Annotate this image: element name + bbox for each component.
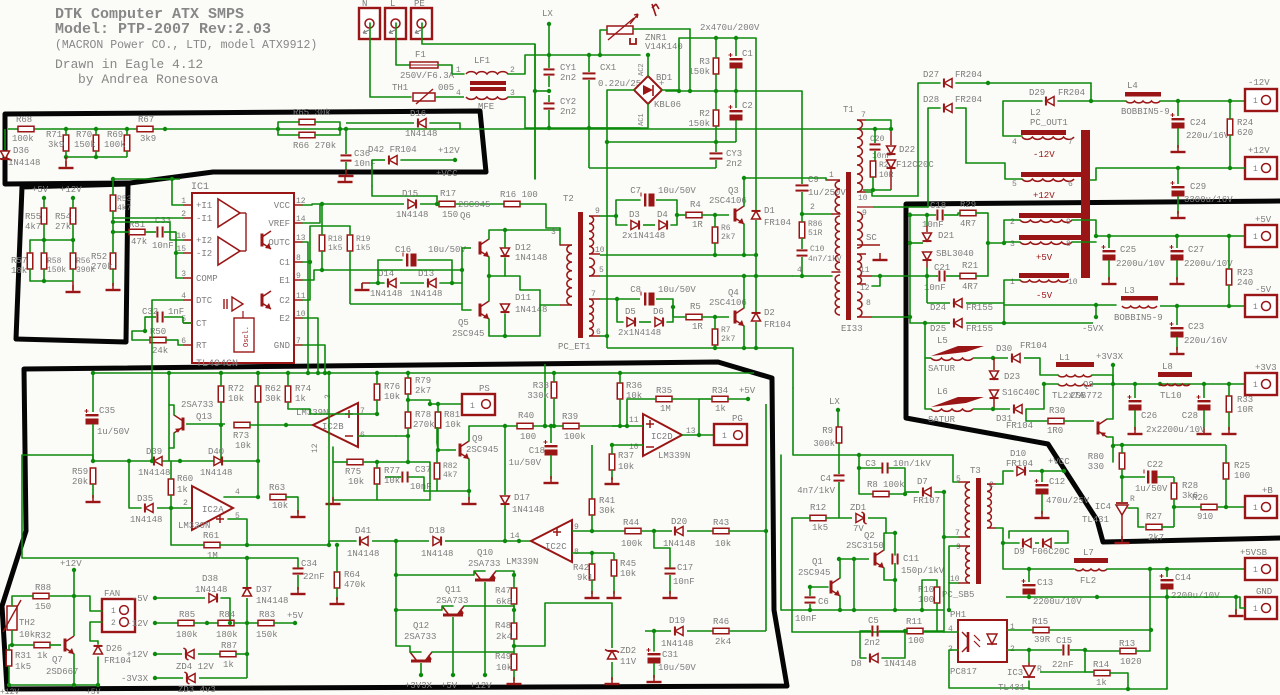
resistor R6 2k7 bbox=[712, 227, 718, 243]
svg-text:10u/50V: 10u/50V bbox=[658, 663, 696, 673]
svg-text:C25: C25 bbox=[1120, 245, 1136, 255]
IC1 pin 10 E2 bbox=[294, 317, 303, 319]
wire FAN pin2 bbox=[90, 622, 102, 641]
PC_OUT1 winding 2-9 bbox=[1019, 213, 1082, 218]
wires R65 R66 loop bbox=[278, 122, 299, 129]
IC1 pin 9 E1 bbox=[294, 279, 303, 281]
svg-text:C6: C6 bbox=[818, 597, 829, 607]
svg-text:220u/16V: 220u/16V bbox=[1184, 336, 1228, 346]
svg-text:+VCC: +VCC bbox=[1048, 457, 1070, 467]
transistor Q4 2SC4106 bbox=[734, 311, 737, 324]
capacitor C8 10u/50V bbox=[644, 293, 646, 306]
svg-text:R66 270k: R66 270k bbox=[293, 141, 336, 151]
row y545 right bbox=[247, 544, 329, 546]
svg-text:R65 30k: R65 30k bbox=[293, 108, 331, 118]
svg-text:470u/25V: 470u/25V bbox=[1046, 496, 1090, 506]
svg-text:D35: D35 bbox=[137, 494, 153, 504]
capacitor C15 22nF bbox=[1062, 645, 1064, 656]
svg-text:CY3: CY3 bbox=[726, 149, 742, 159]
diode D39 1N4148 bbox=[154, 457, 162, 466]
ground divider bbox=[72, 281, 74, 290]
svg-text:IC2B: IC2B bbox=[322, 422, 344, 432]
svg-text:C12: C12 bbox=[1049, 477, 1065, 487]
svg-text:2SC4106: 2SC4106 bbox=[709, 196, 747, 206]
+VCC bus top of control box bbox=[93, 372, 754, 374]
wire D27 from T1 pin10 bbox=[918, 83, 940, 196]
resistor R28 3k6 bbox=[1171, 483, 1177, 499]
svg-text:PH1: PH1 bbox=[950, 610, 966, 620]
connector PE bbox=[411, 8, 432, 39]
line filter LF1 bbox=[466, 72, 508, 74]
diode D2 FR104 bbox=[752, 313, 761, 321]
svg-text:R33: R33 bbox=[1237, 395, 1253, 405]
wire bottom row to gnd rail bbox=[1166, 597, 1168, 689]
diode D10 FR104 bbox=[1017, 467, 1025, 476]
resistor R70 150k bbox=[93, 135, 99, 151]
wire R78 R76 node bbox=[396, 435, 408, 437]
svg-text:10u/50V: 10u/50V bbox=[428, 245, 466, 255]
resistor R23 240 bbox=[1226, 269, 1232, 285]
wire T1 pin8 bbox=[872, 316, 910, 318]
svg-text:L4: L4 bbox=[1127, 81, 1138, 91]
node LX standby bbox=[836, 408, 840, 412]
svg-text:2SA733: 2SA733 bbox=[181, 400, 213, 410]
svg-text:R84: R84 bbox=[219, 610, 235, 620]
wire T1 pin7 to B+ row bbox=[744, 177, 826, 179]
resistor R34 1k bbox=[712, 396, 728, 402]
svg-text:FL2: FL2 bbox=[1080, 576, 1096, 586]
wire C7 D4 right node bbox=[656, 199, 677, 201]
connector +B output bbox=[1245, 496, 1277, 518]
comparator IC2C LM339N bbox=[531, 520, 572, 562]
IC1 internal comparator 1 bbox=[218, 199, 240, 227]
diode D15 1N4148 bbox=[408, 200, 416, 209]
svg-text:1k5: 1k5 bbox=[356, 244, 371, 253]
wire FAN pin1 bbox=[90, 596, 102, 611]
capacitor C28 bbox=[1198, 400, 1211, 402]
svg-text:9: 9 bbox=[862, 209, 867, 218]
svg-text:2: 2 bbox=[989, 481, 994, 490]
svg-text:1N4148: 1N4148 bbox=[421, 549, 453, 559]
svg-text:R59: R59 bbox=[72, 467, 88, 477]
svg-text:C2: C2 bbox=[742, 101, 753, 111]
capacitor CY2 2n2 bbox=[544, 102, 555, 104]
dual diode D22 F12C20C bbox=[887, 146, 896, 154]
wire IC2B in+ pin7 bbox=[288, 409, 358, 414]
svg-text:FR104: FR104 bbox=[1006, 421, 1033, 431]
svg-text:ZD4 12V: ZD4 12V bbox=[176, 662, 214, 672]
svg-text:10k: 10k bbox=[384, 476, 400, 486]
svg-text:-5V: -5V bbox=[1036, 291, 1053, 301]
svg-text:270k: 270k bbox=[413, 420, 435, 430]
svg-text:R67: R67 bbox=[138, 115, 154, 125]
resistor R40 100 bbox=[517, 423, 533, 429]
diode D29 FR204 bbox=[1046, 97, 1054, 106]
svg-text:+12V: +12V bbox=[438, 146, 460, 156]
svg-text:R72: R72 bbox=[228, 384, 244, 394]
svg-text:R56: R56 bbox=[76, 257, 91, 266]
wire T1 pin10 bbox=[866, 192, 918, 196]
svg-text:D3: D3 bbox=[629, 210, 640, 220]
svg-text:+12V: +12V bbox=[470, 681, 492, 691]
svg-text:+I2: +I2 bbox=[196, 236, 212, 246]
row -3V3X ZD3 bbox=[153, 676, 157, 680]
svg-text:R19: R19 bbox=[356, 235, 371, 244]
wire CY3 return row bbox=[589, 167, 716, 169]
row y500 grounds bbox=[377, 499, 430, 501]
wire winding 2 left bbox=[1004, 220, 1020, 243]
svg-text:R30: R30 bbox=[1049, 406, 1065, 416]
wire T3 pin9 bbox=[949, 546, 958, 610]
optocoupler PH1 PC817 body bbox=[958, 620, 1007, 662]
svg-text:R27: R27 bbox=[1146, 512, 1162, 522]
svg-text:1k: 1k bbox=[715, 404, 726, 414]
wire L7 output row bbox=[1107, 568, 1245, 570]
svg-text:1: 1 bbox=[1253, 165, 1258, 174]
resistor R10 100 bbox=[934, 587, 940, 603]
IC1 internal transistor 1 bbox=[261, 234, 264, 247]
svg-text:-12V: -12V bbox=[1033, 150, 1055, 160]
svg-text:Q6: Q6 bbox=[460, 211, 471, 221]
svg-text:AC1: AC1 bbox=[638, 113, 646, 126]
svg-text:CY2: CY2 bbox=[560, 97, 576, 107]
svg-text:4R7: 4R7 bbox=[960, 219, 976, 229]
svg-text:SATUR: SATUR bbox=[928, 364, 956, 374]
IC1 internal comparator 2 bbox=[218, 237, 240, 265]
wire F1 to LF1 bbox=[438, 65, 464, 74]
svg-text:R32: R32 bbox=[35, 631, 51, 641]
T1 right winding 7-10 bbox=[857, 120, 862, 192]
svg-text:1N4148: 1N4148 bbox=[396, 210, 428, 220]
svg-text:1u/250V: 1u/250V bbox=[808, 188, 846, 198]
svg-text:Q1: Q1 bbox=[812, 557, 823, 567]
svg-text:2k7: 2k7 bbox=[721, 233, 736, 242]
wire T2 left lower bbox=[539, 290, 541, 305]
inductor L7 FL2 bbox=[1074, 558, 1108, 563]
svg-text:RT: RT bbox=[196, 341, 207, 351]
svg-text:2: 2 bbox=[810, 203, 815, 212]
T1 right winding SC bbox=[857, 212, 862, 248]
svg-text:1u/50V: 1u/50V bbox=[1135, 484, 1168, 494]
svg-text:D22: D22 bbox=[899, 145, 915, 155]
svg-text:1: 1 bbox=[456, 66, 461, 75]
svg-text:R55: R55 bbox=[25, 212, 41, 222]
svg-text:1: 1 bbox=[829, 171, 834, 180]
svg-text:Q5: Q5 bbox=[458, 318, 469, 328]
resistor R16 100 bbox=[504, 201, 520, 207]
zener ZD1 7V bbox=[856, 514, 864, 523]
svg-text:PC_SB5: PC_SB5 bbox=[942, 590, 974, 600]
capacitor C33 10nF bbox=[156, 227, 158, 238]
wire T3 pin7 bbox=[944, 536, 958, 538]
capacitor C1 bbox=[730, 58, 743, 60]
resistor R35 1M bbox=[656, 396, 672, 402]
svg-text:VREF: VREF bbox=[268, 219, 290, 229]
resistor R63 10k bbox=[270, 494, 286, 500]
IC1 pin 13 OUTC bbox=[294, 241, 303, 243]
diode D16 1N4148 bbox=[418, 119, 426, 128]
svg-text:Model: PTP-2007 Rev:2.03: Model: PTP-2007 Rev:2.03 bbox=[55, 21, 271, 38]
resistor R88 150 bbox=[33, 593, 49, 599]
junction CY mid to PE bbox=[547, 89, 551, 93]
resistor R68 100k bbox=[18, 126, 34, 132]
svg-text:1k5: 1k5 bbox=[15, 662, 31, 672]
wire D42 left down bbox=[371, 160, 373, 186]
svg-text:2n2: 2n2 bbox=[864, 638, 880, 648]
T1 left winding third bbox=[835, 275, 840, 315]
wire Q4 collector up bbox=[743, 276, 745, 308]
svg-text:CY1: CY1 bbox=[560, 63, 576, 73]
svg-text:100k: 100k bbox=[621, 539, 643, 549]
inductor L3 BOBBIN5-9 bbox=[1121, 296, 1158, 301]
svg-text:LM339N: LM339N bbox=[506, 557, 538, 567]
svg-text:R8: R8 bbox=[867, 480, 878, 490]
svg-text:F12C20C: F12C20C bbox=[896, 160, 934, 170]
svg-text:R78: R78 bbox=[415, 410, 431, 420]
svg-text:R23: R23 bbox=[1237, 268, 1253, 278]
capacitor C35 1u/50V bbox=[86, 414, 99, 416]
svg-text:10: 10 bbox=[595, 246, 605, 255]
svg-text:27k: 27k bbox=[55, 222, 71, 232]
IC1 pin 6 RT bbox=[183, 344, 192, 346]
wire pin7 to aux row bbox=[866, 120, 891, 129]
svg-text:ZD3 4v3: ZD3 4v3 bbox=[178, 685, 216, 695]
svg-text:2k7: 2k7 bbox=[415, 386, 431, 396]
svg-text:10nF: 10nF bbox=[673, 577, 695, 587]
resistor R24 620 bbox=[1227, 119, 1233, 135]
wire LX vertical continues bbox=[534, 44, 536, 179]
svg-text:R34: R34 bbox=[712, 386, 728, 396]
svg-text:R79: R79 bbox=[415, 376, 431, 386]
diode D17 1N4148 bbox=[504, 426, 506, 495]
saturable inductor L5 SATUR bbox=[924, 323, 926, 358]
wire bridge AC1 bbox=[589, 104, 648, 128]
svg-text:D39: D39 bbox=[146, 447, 162, 457]
IC1 internal DTC buffer bbox=[232, 297, 243, 311]
svg-text:11: 11 bbox=[860, 266, 870, 275]
black marker outline big control region bbox=[2, 362, 787, 689]
svg-text:1: 1 bbox=[470, 402, 475, 411]
diode D1 FR104 bbox=[752, 211, 761, 219]
svg-text:100: 100 bbox=[918, 595, 934, 605]
svg-text:2SB772: 2SB772 bbox=[1070, 391, 1102, 401]
svg-text:R60: R60 bbox=[177, 474, 193, 484]
svg-text:R54: R54 bbox=[55, 212, 71, 222]
svg-text:R13: R13 bbox=[1119, 639, 1135, 649]
svg-text:+12V: +12V bbox=[1033, 191, 1055, 201]
shunt reg IC4 TL431 symbol bbox=[1116, 502, 1128, 504]
svg-text:R85: R85 bbox=[179, 610, 195, 620]
wires driver center loop bbox=[400, 282, 424, 284]
svg-text:1N4148: 1N4148 bbox=[410, 289, 442, 299]
capacitor CX1 0.22u/250V bbox=[583, 72, 596, 74]
resistor R57 18k bbox=[27, 253, 33, 269]
svg-text:BOBBIN5-9: BOBBIN5-9 bbox=[1121, 107, 1170, 117]
wire B- row y348 bbox=[607, 347, 793, 349]
svg-text:1N4148: 1N4148 bbox=[512, 505, 544, 515]
+12V node divider bbox=[71, 196, 75, 200]
svg-text:5: 5 bbox=[1012, 180, 1017, 189]
svg-text:GND: GND bbox=[1256, 587, 1272, 597]
capacitor C27 2200u/10V bbox=[1171, 250, 1184, 252]
svg-text:R7: R7 bbox=[721, 326, 731, 335]
IC1 pin 15 -I2 bbox=[183, 252, 192, 254]
svg-text:C7: C7 bbox=[630, 186, 641, 196]
svg-text:Q12: Q12 bbox=[413, 621, 429, 631]
diode D19 1N4148 bbox=[675, 627, 683, 636]
svg-text:R17: R17 bbox=[440, 189, 456, 199]
svg-text:150k: 150k bbox=[47, 266, 66, 275]
svg-text:R29: R29 bbox=[960, 200, 976, 210]
U symbol under ZNR1 bbox=[630, 38, 636, 44]
svg-text:IC4: IC4 bbox=[1095, 502, 1111, 512]
svg-text:1nF: 1nF bbox=[168, 307, 184, 317]
resistor R43 10k bbox=[713, 528, 729, 534]
wire TH2 bottom bbox=[11, 630, 13, 645]
resistor R46 2k4 bbox=[713, 628, 729, 634]
svg-text:C22: C22 bbox=[1147, 460, 1163, 470]
comparator IC2B LM339N bbox=[313, 403, 358, 447]
wire Q6 base bbox=[462, 247, 471, 249]
svg-text:4k7: 4k7 bbox=[117, 204, 132, 213]
resistor R3 150k bbox=[713, 58, 719, 74]
vertical x329 from rail bbox=[328, 373, 330, 545]
svg-text:4: 4 bbox=[235, 488, 240, 497]
svg-text:TH2: TH2 bbox=[19, 618, 35, 628]
svg-text:C2: C2 bbox=[279, 296, 290, 306]
svg-text:51R: 51R bbox=[808, 229, 823, 238]
svg-text:1k5: 1k5 bbox=[812, 523, 828, 533]
capacitor C12 470u/25V bbox=[1036, 484, 1049, 486]
svg-text:910: 910 bbox=[1197, 512, 1213, 522]
svg-text:C34: C34 bbox=[301, 559, 317, 569]
IC2A output wire pin4 bbox=[224, 496, 258, 498]
connector PG bbox=[714, 424, 747, 445]
svg-text:2k4: 2k4 bbox=[496, 632, 512, 642]
T3 left winding 9-10 bbox=[966, 546, 970, 583]
svg-text:-I1: -I1 bbox=[196, 214, 212, 224]
T2 right winding 5 bbox=[589, 258, 594, 276]
wire RT CT common bbox=[132, 331, 145, 340]
vertical x592 upper segment bbox=[591, 445, 593, 499]
transformer T3 PC_SB5 core bbox=[976, 478, 981, 584]
svg-text:330k: 330k bbox=[527, 391, 549, 401]
svg-text:1M: 1M bbox=[660, 404, 671, 414]
svg-text:3k9: 3k9 bbox=[140, 134, 156, 144]
svg-text:D26: D26 bbox=[106, 644, 122, 654]
wire C2 pin tie bbox=[303, 262, 310, 300]
wire GND pin down bbox=[303, 345, 325, 373]
svg-text:30k: 30k bbox=[599, 506, 615, 516]
svg-text:1N4148: 1N4148 bbox=[195, 585, 227, 595]
svg-text:L8: L8 bbox=[1162, 362, 1173, 372]
svg-text:150k: 150k bbox=[688, 119, 710, 129]
wire D21 top bbox=[926, 215, 928, 225]
svg-text:100k: 100k bbox=[883, 480, 905, 490]
svg-text:1k: 1k bbox=[223, 660, 234, 670]
resistor R66 270k bbox=[299, 132, 315, 138]
resistor R32 1k bbox=[34, 642, 50, 648]
svg-text:14: 14 bbox=[510, 532, 520, 541]
svg-text:7: 7 bbox=[861, 111, 866, 120]
+5V node divider bbox=[42, 196, 46, 200]
capacitor C20 10nF bbox=[870, 143, 881, 145]
svg-text:D20: D20 bbox=[671, 517, 687, 527]
wires Q2 bbox=[886, 533, 895, 555]
svg-text:OUTC: OUTC bbox=[268, 238, 290, 248]
resistor R77 10k bbox=[374, 468, 380, 484]
resistor R58 150k bbox=[41, 253, 47, 269]
svg-text:250V/F6.3A: 250V/F6.3A bbox=[400, 71, 455, 81]
diode D13 1N4148 bbox=[428, 279, 436, 288]
L4 inductor BOBBIN5-9 bbox=[1125, 92, 1161, 97]
wire R40 row from above bbox=[544, 364, 546, 426]
wires Q8 collector emitter bbox=[1107, 384, 1113, 419]
connector +5VSB output bbox=[1245, 558, 1277, 580]
resistor R4 1R bbox=[686, 212, 702, 218]
svg-text:3: 3 bbox=[551, 228, 556, 237]
svg-text:150: 150 bbox=[35, 602, 51, 612]
svg-text:C20: C20 bbox=[870, 135, 885, 144]
svg-text:2x470u/200V: 2x470u/200V bbox=[700, 23, 760, 33]
resistor R12 1k5 bbox=[810, 515, 826, 521]
shunt reg IC3 TL431 bbox=[1023, 666, 1035, 677]
svg-text:Q13: Q13 bbox=[196, 412, 212, 422]
wires Q6 emitter bbox=[488, 257, 490, 276]
svg-text:D17: D17 bbox=[514, 493, 530, 503]
svg-text:100k: 100k bbox=[104, 140, 126, 150]
svg-text:1R: 1R bbox=[692, 220, 703, 230]
wire C8 D6 right node bbox=[656, 298, 673, 300]
svg-text:C16: C16 bbox=[395, 245, 411, 255]
resistor R55 4k7 bbox=[41, 208, 47, 224]
svg-text:+5V: +5V bbox=[1255, 215, 1272, 225]
svg-text:C26: C26 bbox=[1141, 411, 1157, 421]
svg-text:N: N bbox=[362, 0, 367, 9]
T3 left winding 5-7 bbox=[965, 482, 970, 537]
svg-text:SC: SC bbox=[866, 233, 877, 243]
svg-text:R11: R11 bbox=[906, 617, 922, 627]
svg-text:Q10: Q10 bbox=[477, 548, 493, 558]
svg-text:+12V: +12V bbox=[126, 650, 148, 660]
svg-text:FR104: FR104 bbox=[764, 218, 791, 228]
svg-text:DTC: DTC bbox=[196, 296, 213, 306]
svg-text:1N4148: 1N4148 bbox=[130, 515, 162, 525]
svg-text:R74: R74 bbox=[295, 384, 311, 394]
capacitor CY1 2n2 bbox=[544, 68, 555, 70]
svg-text:+: + bbox=[659, 79, 664, 89]
svg-text:270k: 270k bbox=[91, 262, 113, 272]
svg-text:R82: R82 bbox=[443, 462, 458, 471]
svg-text:D36: D36 bbox=[13, 146, 29, 156]
resistor R64 470k bbox=[334, 572, 340, 588]
svg-text:3300u/16V: 3300u/16V bbox=[1184, 195, 1233, 205]
capacitor C26 bbox=[1129, 400, 1142, 402]
svg-text:10k: 10k bbox=[715, 539, 731, 549]
capacitor C17 10nF bbox=[665, 567, 676, 569]
diode D12 1N4148 bbox=[501, 248, 510, 256]
wires D9 loop bbox=[996, 528, 1019, 543]
svg-text:1N4148: 1N4148 bbox=[256, 596, 288, 606]
capacitor C7 10u/50V bbox=[644, 194, 646, 207]
capacitor C24 220u/16V bbox=[1172, 118, 1185, 120]
resistor R27 2k7 bbox=[1146, 524, 1162, 530]
wires into box from above bbox=[151, 365, 153, 461]
svg-text:+5VSB: +5VSB bbox=[1240, 548, 1268, 558]
svg-text:FR107: FR107 bbox=[913, 496, 940, 506]
svg-text:D37: D37 bbox=[256, 585, 272, 595]
wire B- to standby return bbox=[792, 348, 794, 388]
